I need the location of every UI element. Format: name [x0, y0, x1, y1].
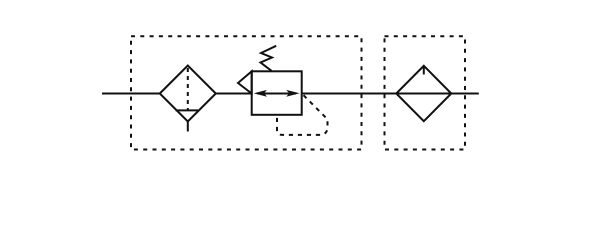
filter F1 dashed element centerline [187, 68, 189, 110]
filter F1 diamond body [160, 66, 216, 122]
filter F1 drain line [187, 122, 189, 132]
regulator R1 dashed pilot sensing line [277, 95, 328, 135]
lubricator L1 diamond body [396, 66, 451, 121]
enclosure dashed box filter-regulator unit [131, 36, 362, 149]
lubricator L1 oil drip line [423, 67, 425, 75]
regulator R1 adjustment spring [261, 46, 277, 71]
regulator R1 flow path arrow shaft [257, 93, 296, 95]
filter F1 water trap chord [176, 109, 199, 111]
wire filter-to-regulator segment [216, 93, 253, 95]
regulator R1 arrowhead right [286, 90, 299, 97]
regulator R1 inlet poppet triangle [238, 71, 252, 93]
wire regulator-to-output segment [302, 93, 479, 95]
wire main flow line left segment [102, 93, 161, 95]
enclosure dashed box lubricator unit [385, 36, 466, 149]
regulator R1 arrowhead left [254, 90, 267, 97]
regulator R1 body box [252, 71, 302, 115]
